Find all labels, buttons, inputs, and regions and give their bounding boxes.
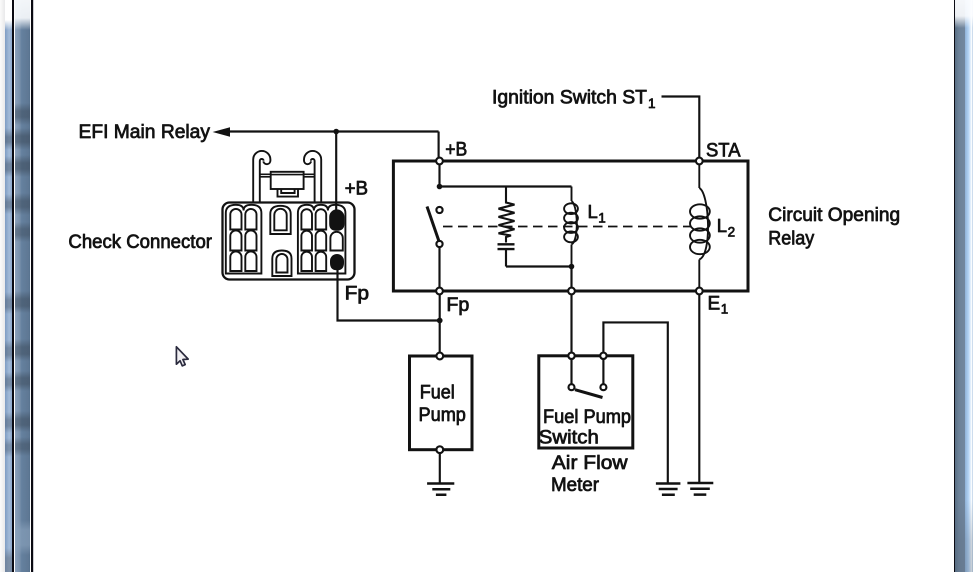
check connector drawing (223, 151, 355, 280)
left group arches (230, 209, 256, 230)
wire: Fp terminal down to fuel pump (439, 294, 441, 354)
svg-text:+B: +B (345, 178, 369, 199)
fuel pump switch blade (575, 390, 603, 398)
connector body (223, 203, 355, 280)
svg-text:Pump: Pump (419, 405, 466, 426)
left window chrome: outer gutter (0, 0, 5, 572)
relay box (Circuit Opening Relay) (393, 161, 748, 291)
right group arches (cols 1-2) (301, 209, 326, 229)
relay switch blade (427, 207, 439, 241)
right window chrome: black edge (954, 0, 956, 572)
middle bottom slot (272, 251, 291, 277)
node: junction on +B branch (437, 184, 443, 190)
left window chrome: inner black edge (31, 0, 33, 572)
coil L2 (690, 164, 710, 288)
terminal: switch right (600, 353, 606, 359)
svg-text:Fp: Fp (345, 283, 370, 304)
wire: ignition switch ST1 to STA (662, 97, 700, 158)
svg-text:EFI Main Relay: EFI Main Relay (79, 122, 211, 143)
left window chrome: slate strip (15, 0, 30, 572)
resistor (relay coil damping) (499, 187, 515, 243)
svg-text:+B: +B (445, 140, 467, 161)
node: junction EFI wire / check connector (333, 129, 339, 135)
left window chrome: black divider (12, 0, 14, 572)
svg-text:Air Flow: Air Flow (552, 453, 628, 474)
ground (E1) (687, 483, 713, 495)
svg-text:Fuel Pump: Fuel Pump (543, 407, 631, 428)
relay switch upper contact (436, 207, 442, 213)
fuel pump box (410, 356, 473, 450)
terminal: fuel pump top (436, 353, 443, 360)
left window chrome: slate strip shading (15, 0, 30, 572)
mouse cursor (176, 347, 188, 366)
terminal: STA (696, 158, 703, 165)
svg-text:Circuit Opening: Circuit Opening (768, 205, 900, 226)
left window chrome: light blue strip (5, 0, 12, 572)
svg-text:Fp: Fp (446, 295, 469, 316)
right window chrome: slate strip (955, 0, 965, 572)
connector latch: right hook (304, 151, 321, 203)
svg-text:Fuel: Fuel (420, 383, 455, 404)
right slot group outline (298, 205, 346, 274)
contact: switch left (569, 384, 575, 390)
right window chrome: top highlight (955, 0, 973, 572)
svg-text:Switch: Switch (539, 428, 599, 449)
pin +B (filled) (329, 209, 344, 230)
wire: switch right terminal up-over to ground (603, 322, 667, 482)
terminal: Fp (436, 288, 443, 295)
wire: L1 to mid terminal (570, 267, 572, 289)
contact: switch right (600, 384, 606, 390)
wire: drop to +B terminal (438, 132, 440, 158)
right window chrome: light blue strip (965, 0, 973, 572)
svg-text:Meter: Meter (551, 475, 600, 496)
fuel pump switch box (539, 356, 633, 448)
wire: +B to top-rail junction (438, 164, 440, 186)
ground (fuel pump) (427, 484, 454, 495)
left slot group outline (226, 205, 262, 274)
terminal: switch left (568, 353, 574, 359)
wire: fuel pump to ground (439, 453, 441, 482)
svg-text:L1: L1 (588, 201, 606, 226)
relay switch lower contact (436, 241, 442, 247)
right col3 middle arch (330, 232, 342, 251)
terminal: fuel pump bottom (436, 446, 443, 453)
wire: left terminal to contact (570, 359, 572, 384)
wire: capacitor to bottom rail (505, 250, 507, 267)
wire: Fp pin down and over to fuel pump line (338, 268, 440, 321)
wire: bottom rail (506, 265, 572, 267)
wire: top rail to L1 (440, 185, 572, 187)
node: junction bottom rail / L1 (569, 264, 575, 270)
svg-text:1: 1 (648, 96, 656, 111)
connector latch: left hook (253, 151, 270, 203)
ground (air flow meter) (656, 484, 681, 495)
connector latch: shelves (260, 174, 315, 177)
wire: EFI main relay feed (227, 130, 439, 132)
wire: drop to check connector +B pin (335, 132, 337, 214)
wire: relay mid terminal to fuel pump switch (570, 294, 572, 354)
terminal: E1 (696, 288, 703, 295)
arrowhead (to EFI main relay) (213, 127, 230, 137)
svg-text:STA: STA (706, 141, 741, 162)
coil L1 (564, 187, 578, 267)
svg-text:Ignition Switch ST: Ignition Switch ST (492, 87, 647, 108)
terminal: +B (436, 158, 443, 165)
left window chrome: white sliver (14, 0, 16, 572)
wire: E1 to ground (698, 294, 700, 482)
wire: right terminal to contact (602, 359, 604, 384)
svg-text:L2: L2 (717, 215, 735, 240)
svg-text:E1: E1 (708, 294, 729, 317)
terminal: mid (to fuel pump switch) (568, 288, 575, 295)
capacitor (498, 244, 515, 249)
svg-text:Relay: Relay (768, 228, 814, 249)
dashed actuation line (443, 226, 691, 228)
wire: switch to Fp terminal (438, 247, 440, 288)
svg-text:Check Connector: Check Connector (68, 232, 212, 253)
connector latch: center button (271, 172, 304, 189)
pin Fp (filled) (330, 254, 344, 270)
middle top slot (270, 206, 290, 234)
left window chrome: light strip shading (5, 0, 12, 572)
node: junction Fp line (437, 318, 443, 324)
